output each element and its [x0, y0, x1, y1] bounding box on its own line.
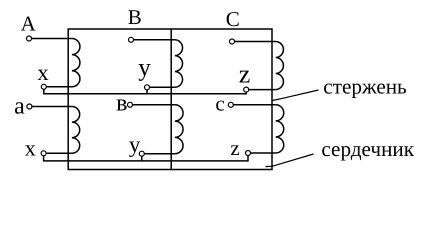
- svg-text:стержень: стержень: [323, 75, 407, 99]
- svg-text:B: B: [128, 5, 142, 29]
- svg-text:A: A: [21, 12, 37, 36]
- svg-text:c: c: [215, 92, 224, 116]
- svg-text:y: y: [129, 132, 141, 157]
- svg-text:в: в: [116, 91, 127, 117]
- svg-text:сердечник: сердечник: [321, 137, 414, 161]
- svg-text:C: C: [226, 7, 240, 31]
- svg-text:y: y: [138, 55, 151, 82]
- svg-text:a: a: [14, 93, 25, 119]
- svg-text:z: z: [230, 136, 239, 160]
- svg-text:x: x: [37, 60, 48, 85]
- svg-text:z: z: [239, 60, 251, 89]
- svg-text:x: x: [25, 136, 36, 161]
